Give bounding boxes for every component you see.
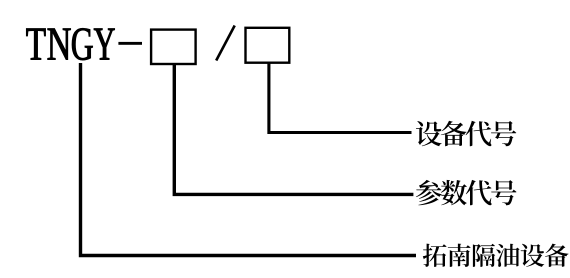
box 2 (equipment code) (246, 28, 290, 63)
text TNGY: letter G (72, 28, 93, 60)
wire from box 2 to 设备代号 label (269, 63, 412, 133)
text TNGY: letter T (26, 29, 45, 60)
label 设备代号 (equipment code) (416, 121, 516, 146)
label 拓南隔油设备 (Tuonan oil separation equipment) (423, 244, 569, 267)
box 1 (parameter code) (151, 30, 196, 64)
text TNGY: letter Y (94, 29, 115, 60)
slash separator (216, 26, 235, 61)
dash after TNGY (118, 42, 142, 45)
label 参数代号 (parameter code) (416, 180, 517, 205)
wire from box 1 to 参数代号 label (174, 64, 413, 195)
wire from TNGY to 拓南隔油设备 label (81, 63, 417, 256)
text TNGY: letter N (48, 29, 71, 60)
